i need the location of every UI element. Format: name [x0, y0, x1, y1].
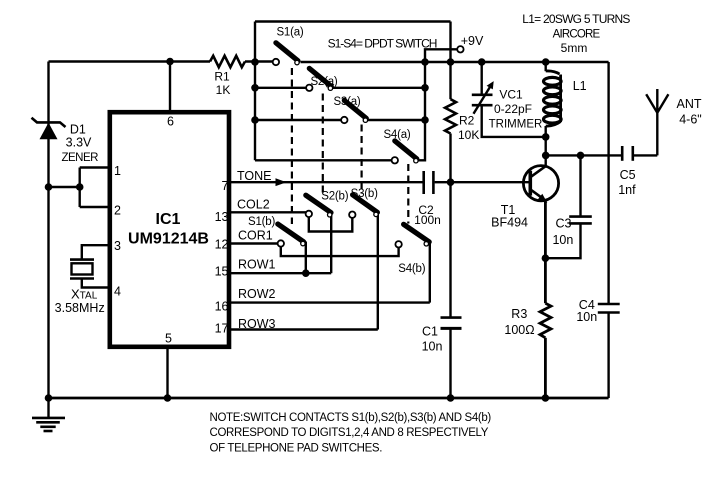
node rail-S2a junction: [251, 84, 259, 92]
DPDT link S3 dashed: [361, 125, 363, 195]
wire R2 top stem: [449, 62, 451, 99]
node R3/rail junction: [542, 394, 550, 402]
svg-text:L1: L1: [573, 79, 587, 93]
svg-text:C1: C1: [422, 325, 438, 339]
wire C4 to bottom rail: [607, 313, 609, 399]
node collector/C5 junction: [542, 152, 550, 160]
wire pin1-pin2 link: [78, 168, 80, 208]
trimmer capacitor VC1: [472, 81, 494, 114]
wire C5 to antenna: [633, 154, 658, 156]
switch S2(a) lever: [309, 68, 331, 86]
svg-text:16: 16: [215, 299, 229, 313]
node TONE/R2/C1/C2 junction: [447, 178, 455, 186]
svg-text:1K: 1K: [216, 83, 231, 97]
inductor L1: [544, 71, 562, 126]
capacitor C5: [622, 146, 633, 161]
node bus-S2a junction: [421, 84, 429, 92]
contact ring S4(a): [414, 159, 418, 163]
svg-text:D1: D1: [70, 122, 86, 136]
svg-text:ZENER: ZENER: [61, 152, 98, 164]
svg-text:S3(b): S3(b): [351, 188, 378, 200]
svg-text:S4(b): S4(b): [398, 263, 425, 275]
svg-text:C3: C3: [556, 217, 572, 231]
wire emitter down to R3: [544, 200, 547, 303]
wire C2 to junction: [435, 181, 451, 183]
contact ring S3(a): [363, 118, 367, 122]
TONE output arrow: [276, 178, 287, 186]
svg-text:ROW3: ROW3: [238, 317, 276, 331]
svg-text:15: 15: [215, 265, 229, 279]
svg-text:3.3V: 3.3V: [66, 136, 92, 150]
wire right rail down to C4: [607, 62, 609, 304]
svg-text:3: 3: [114, 239, 121, 253]
op-amp/IC U1 box IC1 UM91214B: [110, 112, 229, 347]
wire TONE from pin 7: [231, 181, 423, 183]
node rail-S1a junction: [251, 58, 259, 66]
switch S2(b) lever: [306, 195, 331, 212]
resistor R3: [540, 303, 551, 338]
svg-text:TONE: TONE: [237, 169, 272, 183]
wire COL2 jog to S3(b) input: [309, 217, 353, 232]
svg-text:5: 5: [165, 332, 172, 346]
svg-text:C5: C5: [620, 168, 636, 182]
svg-text:10n: 10n: [422, 340, 443, 354]
svg-text:S2(b): S2(b): [321, 191, 348, 203]
node ground rail left: [45, 394, 53, 402]
input terminal S3(a): [341, 117, 347, 123]
contact ring S1(b): [301, 241, 305, 245]
wire L1 bottom stem: [545, 126, 547, 137]
wire bottom ground rail: [49, 397, 609, 400]
svg-text:10K: 10K: [458, 128, 479, 142]
svg-text:VC1: VC1: [499, 87, 523, 101]
svg-text:6: 6: [167, 114, 174, 128]
contact ring S2(b): [328, 213, 332, 217]
svg-text:3.58MHz: 3.58MHz: [55, 301, 105, 315]
wire S4(a) input: [255, 159, 392, 161]
wire COR1 from pin 12: [231, 242, 278, 244]
wire S3(b) output drop: [377, 213, 379, 330]
svg-text:S1-S4= DPDT SWITCH: S1-S4= DPDT SWITCH: [328, 36, 437, 50]
svg-text:12: 12: [215, 237, 229, 251]
wire R1 to S1(a) input: [245, 60, 273, 62]
svg-text:7: 7: [222, 179, 229, 193]
svg-text:R1: R1: [214, 70, 230, 84]
wire switch box left rail: [254, 22, 256, 161]
contact ring S4(b): [424, 242, 428, 246]
wire C1 bottom stem: [449, 328, 451, 398]
wire +9V rail from S1(a) output to right corner: [301, 61, 609, 63]
wire pin 5 to bottom rail: [166, 349, 168, 398]
svg-text:UM91214B: UM91214B: [128, 231, 209, 248]
node bus-S1a junction: [421, 58, 429, 66]
svg-text:100Ω: 100Ω: [504, 323, 534, 337]
DPDT link S4 dashed: [407, 164, 409, 224]
zener diode D1: [32, 118, 66, 140]
svg-text:S2(a): S2(a): [310, 76, 337, 88]
ground symbol: [32, 418, 65, 431]
svg-text:1: 1: [114, 164, 121, 178]
node emitter/C3 junction: [542, 254, 550, 262]
svg-text:R3: R3: [511, 307, 527, 321]
wire S3(a) output to bus: [368, 119, 425, 121]
input terminal S1(b): [278, 240, 284, 246]
node pin6/R1 junction: [166, 58, 174, 66]
wire pin 3 to crystal: [82, 245, 108, 259]
wire S2(b) output drop: [330, 214, 332, 274]
node VC1/L1/collector junction: [542, 133, 550, 141]
switch S4(b) lever: [404, 224, 430, 242]
wire antenna stem: [656, 89, 658, 155]
wire top horizontal to R1: [49, 60, 211, 62]
wire COL2 from pin 13: [231, 211, 306, 213]
wire junction to transistor base: [451, 181, 529, 183]
wire +9V jog: [425, 49, 457, 62]
wire collector node vertical: [545, 137, 547, 166]
node R2 top junction: [447, 58, 455, 66]
wire R2 bottom stem: [449, 134, 451, 183]
contact ring S2(a): [328, 86, 332, 90]
+9V supply terminal: [457, 46, 463, 52]
node L1 top junction: [542, 58, 550, 66]
wire ROW1 from pin 15: [231, 272, 331, 274]
svg-text:OF TELEPHONE PAD SWITCHES.: OF TELEPHONE PAD SWITCHES.: [210, 443, 383, 455]
svg-text:BF494: BF494: [491, 216, 528, 230]
svg-text:ROW1: ROW1: [238, 258, 276, 272]
svg-text:TRIMMER: TRIMMER: [489, 118, 543, 130]
wire ROW2 from pin 16: [231, 301, 430, 303]
input terminal S2(a): [306, 85, 312, 91]
node C1/rail junction: [447, 394, 455, 402]
switch S3(a) lever: [344, 100, 366, 118]
switch S1(b) lever: [278, 224, 304, 242]
wire left supply rail: [47, 62, 49, 398]
input terminal S3(b): [349, 212, 355, 218]
input terminal S2(b): [306, 211, 312, 217]
svg-text:17: 17: [215, 321, 229, 335]
svg-text:COR1: COR1: [238, 229, 273, 243]
svg-text:2: 2: [114, 204, 121, 218]
wire switch output bus vertical: [418, 62, 425, 160]
contact ring S1(a): [295, 60, 299, 64]
wire S2(a) input: [255, 87, 306, 89]
wire ROW3 from pin 17: [231, 328, 378, 330]
wire C3 bottom jog to emitter: [545, 223, 580, 258]
wire S3(a) input: [255, 119, 341, 121]
wire pin 2 jog: [80, 206, 108, 208]
svg-text:ROW2: ROW2: [238, 287, 276, 301]
node zener tap right: [76, 183, 84, 191]
svg-text:+9V: +9V: [461, 34, 484, 48]
capacitor C2: [424, 171, 434, 194]
capacitor C3: [569, 217, 592, 224]
svg-text:13: 13: [215, 210, 229, 224]
wire collector to C5: [546, 154, 623, 156]
switch S3(b) lever: [353, 195, 378, 213]
wire L1 top stem: [545, 62, 547, 71]
wire VC1 bottom stem and jog to L1: [482, 105, 546, 137]
wire S2(a) output to bus: [333, 87, 425, 89]
svg-text:S3(a): S3(a): [333, 96, 360, 108]
svg-text:100n: 100n: [414, 213, 441, 227]
wire crystal to pin 4: [82, 279, 108, 288]
svg-text:IC1: IC1: [156, 211, 181, 228]
wire pin 1 jog: [80, 166, 108, 168]
wire S1(b) output drop: [305, 242, 307, 274]
wire C3 top stem: [579, 155, 581, 216]
svg-text:4-6": 4-6": [679, 112, 702, 126]
capacitor C4: [598, 304, 620, 313]
input terminal S1(a): [273, 59, 279, 65]
svg-text:CORRESPOND TO DIGITS1,2,4 AND: CORRESPOND TO DIGITS1,2,4 AND 8 RESPECTI…: [210, 427, 489, 439]
svg-text:S4(a): S4(a): [383, 129, 410, 141]
svg-text:L1= 20SWG 5 TURNS: L1= 20SWG 5 TURNS: [522, 12, 630, 26]
wire pin6 drop from top wire to IC: [169, 62, 171, 111]
wire S4(b) output drop: [429, 243, 431, 303]
crystal XTAL: [70, 260, 94, 279]
svg-text:10n: 10n: [576, 310, 597, 324]
wire switch box right drop: [449, 22, 451, 63]
wire ground stem: [47, 398, 49, 418]
wire zener tap to pin1/2 link: [49, 186, 80, 188]
node zener tap left: [45, 183, 53, 191]
svg-text:10n: 10n: [552, 233, 573, 247]
svg-text:R2: R2: [459, 114, 475, 128]
svg-text:S1(b): S1(b): [248, 216, 275, 228]
svg-text:ANT: ANT: [677, 97, 702, 111]
svg-text:NOTE:SWITCH CONTACTS S1(b),S2(: NOTE:SWITCH CONTACTS S1(b),S2(b),S3(b) A…: [210, 412, 492, 424]
svg-text:COL2: COL2: [237, 198, 270, 212]
node VC1 top junction: [478, 58, 486, 66]
svg-text:AIRCORE: AIRCORE: [553, 29, 601, 41]
node bus-S3a junction: [421, 116, 429, 124]
wire switch box top: [255, 20, 451, 22]
node pin5/rail junction: [164, 394, 172, 402]
svg-text:1nf: 1nf: [618, 183, 636, 197]
svg-text:0-22pF: 0-22pF: [494, 102, 532, 116]
resistor R2: [445, 99, 456, 133]
input terminal S4(a): [392, 157, 398, 163]
switch S4(a) lever: [395, 141, 417, 159]
antenna ANT: [646, 94, 668, 113]
contact ring S3(b): [374, 212, 378, 216]
transistor Q1 T1 BF494: [523, 166, 558, 203]
svg-text:4: 4: [114, 285, 121, 299]
svg-text:S1(a): S1(a): [276, 26, 303, 38]
node C3 top junction: [577, 152, 585, 160]
resistor R1: [210, 56, 245, 67]
node S1b/ROW1 junction: [302, 269, 310, 277]
DPDT link S2 dashed: [322, 94, 324, 195]
wire COR1 jog to S4(b) input: [281, 247, 399, 257]
wire R3 to bottom rail: [544, 338, 547, 398]
node rail-S3a junction: [251, 116, 259, 124]
wire C1 top stem: [449, 182, 451, 317]
svg-text:5mm: 5mm: [561, 41, 588, 55]
wire VC1 top stem: [481, 62, 483, 95]
input terminal S4(b): [395, 241, 401, 247]
DPDT link S1 dashed: [291, 68, 293, 224]
switch S1(a) lever: [276, 43, 298, 61]
capacitor C1: [441, 318, 462, 329]
